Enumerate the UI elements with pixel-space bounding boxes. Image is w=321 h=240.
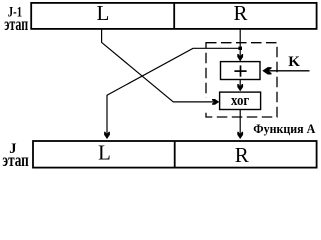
svg-text:этап: этап (4, 14, 28, 34)
plus sign (234, 65, 246, 76)
register row J-1: outer rectangle (31, 3, 316, 29)
svg-text:Функция А: Функция А (253, 122, 315, 136)
xor box (220, 92, 261, 109)
arrow into xor top (237, 84, 243, 91)
wire: top L down, diagonal across, into xor left side (102, 28, 219, 102)
svg-text:этап: этап (2, 150, 28, 170)
adder box (221, 62, 261, 80)
svg-text:хог: хог (231, 93, 249, 109)
svg-text:R: R (234, 1, 248, 25)
junction node on R wire (238, 47, 242, 50)
wire: adder output into xor (239, 80, 241, 91)
wire: top R down into adder (239, 28, 241, 60)
wire: branch from R wire to bottom L (horizontal, diagonal, vertical) (107, 48, 240, 138)
register row J-1: divider between L and R (173, 3, 175, 29)
arrow into xor left side (212, 99, 219, 105)
gap in dashed edge at wire crossing (205, 98, 208, 111)
svg-text:L: L (97, 1, 110, 25)
arrow into adder top (237, 54, 243, 61)
wire: key K into adder (264, 70, 310, 72)
register row J: divider between L and R (174, 141, 176, 168)
svg-text:R: R (235, 143, 249, 167)
wire: xor output down to bottom R register (239, 110, 241, 139)
dashed function box (206, 43, 277, 117)
arrow into adder right side (262, 67, 271, 74)
arrow into bottom R register (237, 132, 243, 139)
register row J: outer rectangle (33, 141, 317, 168)
arrow into bottom L register (104, 132, 110, 139)
svg-text:K: K (288, 54, 300, 70)
svg-text:L: L (98, 141, 111, 165)
